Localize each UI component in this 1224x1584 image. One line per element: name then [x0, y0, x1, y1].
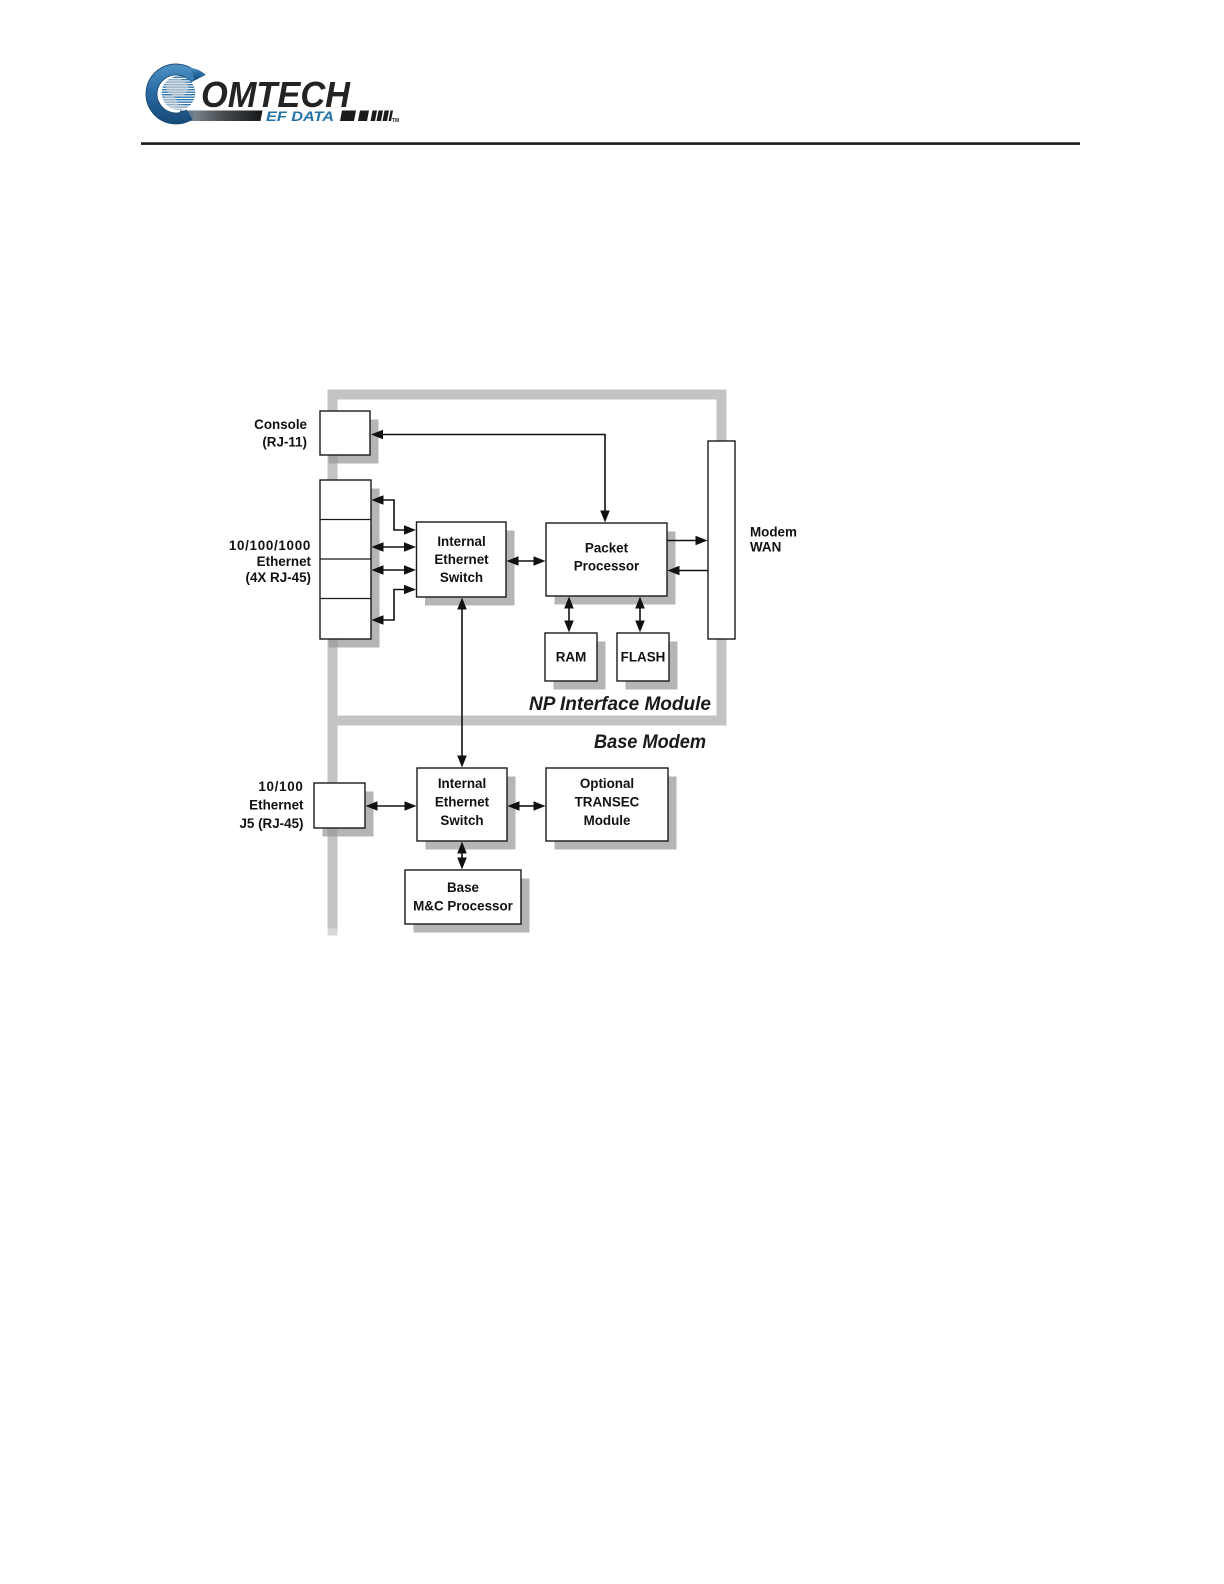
- logo globe: [160, 76, 197, 112]
- 10/100 ethernet J5 port box: [314, 783, 365, 828]
- header horizontal rule: [141, 142, 1080, 145]
- wire console to packet processor: [382, 435, 605, 512]
- arrowhead into packet processor top: [600, 511, 610, 523]
- svg-text:TM: TM: [392, 118, 399, 124]
- svg-text:10/100/1000: 10/100/1000: [229, 538, 311, 553]
- svg-text:Internal: Internal: [438, 776, 486, 791]
- svg-text:Switch: Switch: [440, 570, 483, 585]
- arrowhead into console: [371, 430, 383, 440]
- logo gradient underline bar: [180, 111, 263, 122]
- svg-text:Module: Module: [584, 813, 631, 828]
- internal ethernet switch box (base modem): [417, 768, 507, 841]
- svg-text:RAM: RAM: [556, 650, 587, 665]
- 4x ethernet port stack box: [320, 480, 371, 639]
- wire eth port2 to switch: [382, 546, 406, 548]
- svg-text:Optional: Optional: [580, 776, 634, 791]
- logo comtech C swoosh: [146, 64, 206, 124]
- svg-text:(RJ-11): (RJ-11): [262, 435, 307, 450]
- svg-text:FLASH: FLASH: [621, 650, 666, 665]
- svg-text:Internal: Internal: [437, 534, 485, 549]
- svg-text:Processor: Processor: [574, 559, 640, 574]
- gray left bus bar extension (base modem): [328, 721, 338, 929]
- svg-text:WAN: WAN: [750, 540, 781, 555]
- wire eth port3 to switch: [382, 569, 406, 571]
- svg-text:Console: Console: [254, 417, 307, 432]
- svg-text:Ethernet: Ethernet: [249, 798, 304, 813]
- wire J5 to switch2: [377, 805, 406, 807]
- packet processor box: [546, 523, 667, 596]
- wire eth port1 to switch (elbow): [382, 500, 406, 530]
- svg-text:Ethernet: Ethernet: [257, 554, 312, 569]
- wire eth port4 to switch (elbow): [382, 590, 406, 621]
- wire switch1 to packet processor: [518, 560, 535, 562]
- svg-text:Base: Base: [447, 880, 479, 895]
- internal ethernet switch box (NP module): [417, 522, 507, 597]
- svg-text:EF DATA: EF DATA: [266, 108, 334, 124]
- svg-text:NP Interface Module: NP Interface Module: [529, 694, 711, 715]
- wire packet processor to RAM: [568, 608, 570, 622]
- modem WAN interface box: [708, 441, 735, 639]
- shadow/bar overlap patches: [328, 456, 338, 837]
- svg-text:Modem: Modem: [750, 525, 797, 540]
- wire switch1 to switch2 (long vertical): [461, 609, 463, 757]
- wire switch2 to M&C processor: [461, 853, 463, 859]
- svg-text:Base Modem: Base Modem: [594, 732, 706, 753]
- base M&C processor box: [405, 870, 521, 924]
- wire packet processor to WAN: [668, 540, 697, 542]
- svg-text:TRANSEC: TRANSEC: [575, 795, 640, 810]
- gray bus bar fading tip: [328, 929, 338, 936]
- FLASH box: [617, 633, 669, 681]
- svg-text:M&C Processor: M&C Processor: [413, 899, 514, 914]
- wire WAN to packet processor: [679, 570, 708, 572]
- svg-text:10/100: 10/100: [258, 779, 303, 794]
- logo signal bars: [340, 111, 393, 122]
- gray module frame (NP interface module outline): [333, 395, 722, 721]
- console RJ-11 port box: [320, 411, 370, 455]
- svg-text:(4X RJ-45): (4X RJ-45): [246, 570, 312, 585]
- RAM box: [545, 633, 597, 681]
- wire packet processor to FLASH: [639, 608, 641, 622]
- svg-text:Ethernet: Ethernet: [434, 552, 489, 567]
- optional TRANSEC module box: [546, 768, 668, 841]
- box shadows: [323, 420, 678, 933]
- wire switch2 to TRANSEC: [519, 805, 535, 807]
- svg-text:Ethernet: Ethernet: [435, 795, 490, 810]
- svg-text:Switch: Switch: [440, 813, 483, 828]
- svg-text:Packet: Packet: [585, 541, 629, 556]
- svg-text:J5 (RJ-45): J5 (RJ-45): [239, 816, 303, 831]
